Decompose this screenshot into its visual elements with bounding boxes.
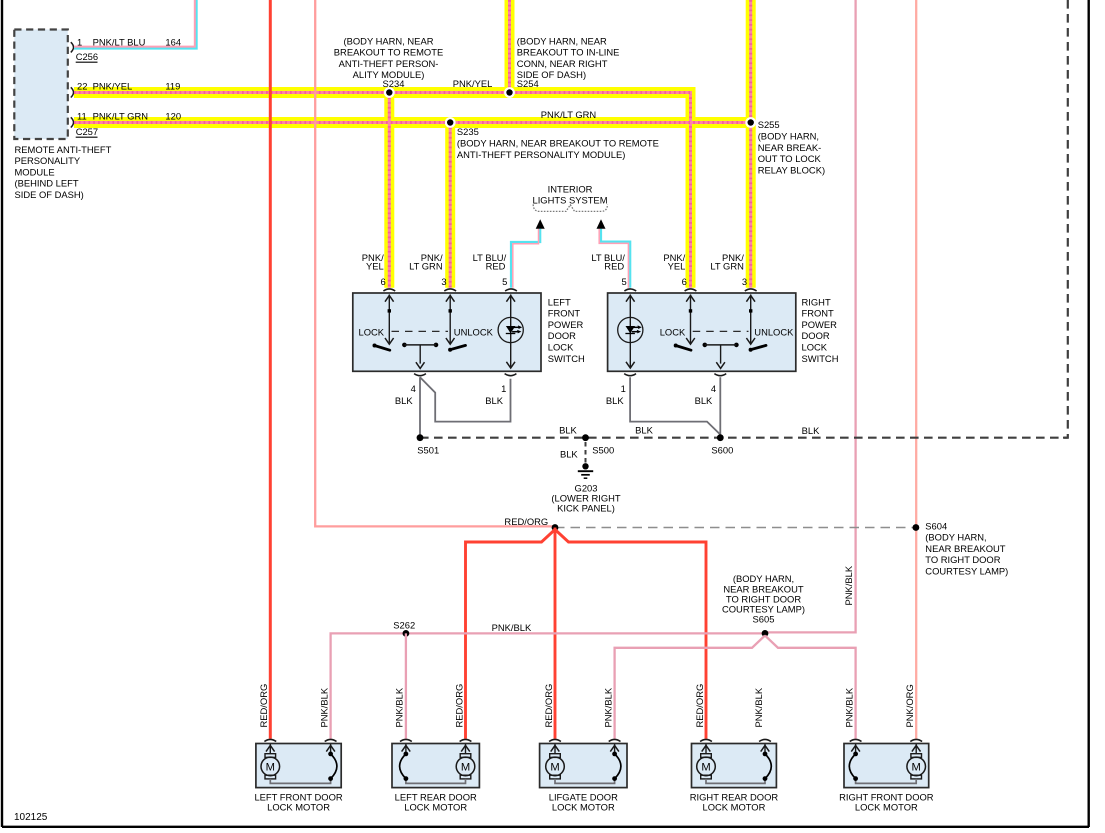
right front power door lock switch LOCK contact line xyxy=(690,295,692,344)
right front power door lock switch pin 6 (top) xyxy=(685,289,697,291)
svg-text:PNK/LT GRN: PNK/LT GRN xyxy=(541,109,596,120)
wire PNK/BLK S605 right branch to right front motor xyxy=(765,636,856,739)
svg-text:UNLOCK: UNLOCK xyxy=(754,326,794,337)
wire LT BLU/RED right switch pin 5 to interior lights system xyxy=(601,229,630,288)
wire PNK/ORG vertical from top to right front door motor xyxy=(915,0,917,739)
svg-text:M: M xyxy=(461,761,470,773)
wire BLK dashed vertical from top, corner to ground bus xyxy=(1063,0,1068,438)
svg-text:PNK/YEL: PNK/YEL xyxy=(453,78,493,89)
svg-text:LOCK MOTOR: LOCK MOTOR xyxy=(267,802,330,813)
svg-text:BLK: BLK xyxy=(606,395,624,406)
splice S254 xyxy=(504,87,515,98)
splice S605 xyxy=(762,630,769,637)
wire RED/ORG solid vertical from top to left front door motor xyxy=(269,0,272,739)
BLK dashed reference wire to S604 xyxy=(555,527,916,529)
splice S600 xyxy=(717,434,724,441)
svg-text:BREAKOUT TO REMOTE: BREAKOUT TO REMOTE xyxy=(334,47,443,58)
svg-text:RED/ORG: RED/ORG xyxy=(543,684,554,728)
module pin 11 connector bracket xyxy=(71,117,74,127)
wire PNK/LT BLU from module pin 1 up to top edge xyxy=(74,0,197,49)
right front power door lock switch UNLOCK contact line xyxy=(750,295,752,344)
right rear door lock motor motor M symbol xyxy=(705,744,707,754)
svg-text:FRONT: FRONT xyxy=(548,308,581,319)
svg-text:BLK: BLK xyxy=(560,449,578,460)
splice S604 xyxy=(913,524,920,531)
svg-text:4: 4 xyxy=(411,383,416,394)
svg-text:M: M xyxy=(550,761,559,773)
svg-text:BLK: BLK xyxy=(635,424,653,435)
svg-text:S254: S254 xyxy=(517,78,539,89)
dotted texture overlays on horizontal wire cores xyxy=(74,91,692,94)
svg-text:PNK/ORG: PNK/ORG xyxy=(904,684,915,727)
svg-text:YEL: YEL xyxy=(366,261,384,272)
left front power door lock switch switch blade (unlock side) xyxy=(448,348,452,352)
wire BLK dashed S500 to ground xyxy=(585,442,587,464)
dotted texture overlays on vertical wire cores xyxy=(508,0,511,93)
svg-text:LOCK: LOCK xyxy=(660,326,686,337)
right rear door lock motor contact arc xyxy=(765,754,771,779)
svg-text:11: 11 xyxy=(77,111,87,122)
left front power door lock switch LOCK contact line xyxy=(388,295,390,344)
wire BLK jumper right switch pin 1 to S600 xyxy=(630,377,720,434)
left front door lock motor pin brackets xyxy=(264,739,276,741)
svg-text:PNK/BLK: PNK/BLK xyxy=(492,622,532,633)
right front power door lock switch switch blade (lock side) xyxy=(674,344,678,348)
right front power door lock switch switch blade (unlock side) xyxy=(749,348,753,352)
splice S255 xyxy=(745,117,756,128)
svg-text:PNK/YEL: PNK/YEL xyxy=(93,80,133,91)
svg-text:PNK/LT BLU: PNK/LT BLU xyxy=(93,36,146,47)
svg-text:KICK PANEL): KICK PANEL) xyxy=(557,502,615,513)
right rear door lock motor box xyxy=(692,744,777,788)
wire PNK/YEL vertical corner to right switch pin 6 xyxy=(686,93,696,288)
wire BLK from right switch pin 4 down to S600 xyxy=(719,377,721,438)
page frame border xyxy=(1,0,3,827)
right rear door lock motor internal wire to contact arc xyxy=(706,779,765,784)
wire PNK/YEL vertical from top to S254 xyxy=(505,0,515,97)
liftgate door lock motor box xyxy=(540,744,627,788)
svg-text:5: 5 xyxy=(621,276,626,287)
svg-text:PNK/BLK: PNK/BLK xyxy=(318,687,329,727)
left rear door lock motor contact arc xyxy=(400,754,406,779)
svg-text:FRONT: FRONT xyxy=(802,308,835,319)
module pin 22 connector bracket xyxy=(71,87,74,97)
svg-text:(BODY HARN,: (BODY HARN, xyxy=(758,131,819,142)
wire RED/ORG center branch down to liftgate motor xyxy=(554,528,557,739)
splice S235 xyxy=(445,117,456,128)
svg-text:INTERIOR: INTERIOR xyxy=(548,183,593,194)
right front power door lock switch dashed link LOCK-UNLOCK xyxy=(693,330,749,332)
wire PNK/YEL horizontal from module pin 22 xyxy=(74,87,696,98)
left front power door lock switch dashed link LOCK-UNLOCK xyxy=(392,330,449,332)
left front door lock motor contact arc xyxy=(331,754,337,779)
svg-text:164: 164 xyxy=(165,36,181,47)
svg-text:S501: S501 xyxy=(417,445,439,456)
svg-text:SWITCH: SWITCH xyxy=(802,353,839,364)
left rear door lock motor pin brackets xyxy=(460,739,472,741)
left front door lock motor box xyxy=(256,744,341,788)
right front door lock motor contact arc xyxy=(849,754,855,779)
left front power door lock switch common contact T xyxy=(402,343,407,348)
left front power door lock switch switch blade (lock side) xyxy=(373,344,377,348)
svg-text:LOCK MOTOR: LOCK MOTOR xyxy=(855,802,918,813)
svg-text:(BODY HARN, NEAR BREAKOUT TO R: (BODY HARN, NEAR BREAKOUT TO REMOTE xyxy=(457,138,659,149)
svg-text:1: 1 xyxy=(501,383,506,394)
wire PNK/YEL vertical S234 to left switch pin 6 xyxy=(384,93,394,288)
svg-text:RED: RED xyxy=(486,261,506,272)
left front power door lock switch UNLOCK contact line xyxy=(449,295,451,344)
svg-text:1: 1 xyxy=(621,383,626,394)
wire PNK/LT GRN vertical from top through S255 to right switch pin 3 xyxy=(746,0,756,288)
wire BLK jumper left switch pin 4 to pin 1 xyxy=(420,377,511,421)
svg-text:M: M xyxy=(701,761,710,773)
left rear door lock motor motor M symbol xyxy=(465,744,467,754)
arrow to interior lights (left) xyxy=(536,219,545,229)
svg-text:M: M xyxy=(912,761,921,773)
splice S500 xyxy=(582,434,589,441)
svg-text:(BEHIND LEFT: (BEHIND LEFT xyxy=(15,178,79,189)
right front door lock motor box xyxy=(844,744,929,788)
left front door lock motor motor M symbol xyxy=(269,744,271,754)
wire PNK/LT GRN vertical S235 to left switch pin 3 xyxy=(445,123,455,288)
svg-text:S604: S604 xyxy=(925,520,947,531)
svg-text:MODULE: MODULE xyxy=(15,166,55,177)
svg-text:PNK/BLK: PNK/BLK xyxy=(394,687,405,727)
wire PNK/BLK main horizontal xyxy=(331,633,765,738)
arrow to interior lights (right) xyxy=(597,219,606,229)
svg-text:COURTESY LAMP): COURTESY LAMP) xyxy=(925,566,1008,577)
right front door lock motor pin brackets xyxy=(910,739,922,741)
svg-text:S234: S234 xyxy=(383,78,405,89)
svg-text:BLK: BLK xyxy=(695,395,713,406)
svg-text:RED/ORG: RED/ORG xyxy=(504,516,548,527)
right rear door lock motor pin brackets xyxy=(700,739,712,741)
svg-text:PNK/BLK: PNK/BLK xyxy=(602,687,613,727)
svg-text:NEAR BREAKOUT: NEAR BREAKOUT xyxy=(925,543,1005,554)
liftgate door lock motor contact arc xyxy=(615,754,621,779)
wire PNK/BLK S605 left branch to liftgate motor xyxy=(615,636,765,739)
svg-text:6: 6 xyxy=(682,276,687,287)
svg-text:RED/ORG: RED/ORG xyxy=(453,684,464,728)
wire PNK/BLK vertical from top, corner to S605 xyxy=(765,0,856,632)
svg-text:BLK: BLK xyxy=(802,425,820,436)
svg-text:LOCK: LOCK xyxy=(548,342,574,353)
right front door lock motor motor M symbol xyxy=(915,744,917,754)
svg-text:(BODY HARN,: (BODY HARN, xyxy=(925,532,986,543)
wire RED/ORG unhighlighted vertical from top, corner to splice xyxy=(315,0,555,526)
svg-text:RELAY BLOCK): RELAY BLOCK) xyxy=(758,164,825,175)
svg-text:M: M xyxy=(266,761,275,773)
svg-text:UNLOCK: UNLOCK xyxy=(454,326,494,337)
wire PNK/LT GRN horizontal from module pin 11 xyxy=(74,117,751,128)
svg-text:SWITCH: SWITCH xyxy=(548,353,585,364)
svg-text:S235: S235 xyxy=(457,126,479,137)
right front power door lock switch pin 4 (bottom) xyxy=(714,374,726,376)
svg-text:DOOR: DOOR xyxy=(802,330,830,341)
svg-text:S262: S262 xyxy=(393,620,415,631)
right front power door lock switch box xyxy=(608,293,796,371)
left front power door lock switch pin 3 (top) xyxy=(444,289,456,291)
svg-text:PNK/LT GRN: PNK/LT GRN xyxy=(93,111,148,122)
svg-text:6: 6 xyxy=(380,276,385,287)
wire RED/ORG right branch to right rear motor xyxy=(555,530,706,739)
left front power door lock switch pin 6 (top) xyxy=(383,289,395,291)
left front power door lock switch illumination LED xyxy=(510,295,512,368)
svg-text:LT GRN: LT GRN xyxy=(710,261,744,272)
svg-text:NEAR BREAK-: NEAR BREAK- xyxy=(758,142,822,153)
wire RED/ORG left branch to left rear motor xyxy=(466,530,556,739)
brace under interior lights label xyxy=(533,204,607,211)
svg-text:BLK: BLK xyxy=(395,395,413,406)
left rear door lock motor box xyxy=(392,744,479,788)
svg-text:PNK/BLK: PNK/BLK xyxy=(753,687,764,727)
svg-text:LOCK MOTOR: LOCK MOTOR xyxy=(404,802,467,813)
right front power door lock switch pin 3 (top) xyxy=(745,289,757,291)
left front power door lock switch box xyxy=(353,293,541,371)
left front power door lock switch pin 4 (bottom) xyxy=(414,374,426,376)
svg-text:SIDE OF DASH): SIDE OF DASH) xyxy=(15,189,84,200)
svg-text:CONN, NEAR RIGHT: CONN, NEAR RIGHT xyxy=(517,58,608,69)
svg-text:LOCK: LOCK xyxy=(359,326,385,337)
svg-text:LOCK MOTOR: LOCK MOTOR xyxy=(552,802,615,813)
right front door lock motor internal wire to contact arc xyxy=(856,779,917,784)
liftgate door lock motor internal wire to contact arc xyxy=(555,779,615,784)
svg-text:RIGHT: RIGHT xyxy=(802,296,831,307)
svg-text:ANTI-THEFT PERSONALITY MODULE): ANTI-THEFT PERSONALITY MODULE) xyxy=(457,149,625,160)
svg-text:(BODY HARN, NEAR: (BODY HARN, NEAR xyxy=(517,35,607,46)
svg-text:S500: S500 xyxy=(592,444,614,455)
svg-text:120: 120 xyxy=(165,111,181,122)
svg-text:BLK: BLK xyxy=(559,424,577,435)
right front power door lock switch common contact T xyxy=(703,343,708,348)
svg-text:119: 119 xyxy=(165,80,180,91)
ground G203 symbol xyxy=(582,463,588,469)
right front power door lock switch pin 5 (top) xyxy=(624,289,636,291)
svg-text:BLK: BLK xyxy=(485,395,503,406)
svg-text:POWER: POWER xyxy=(802,319,838,330)
svg-text:LOCK MOTOR: LOCK MOTOR xyxy=(703,802,766,813)
svg-text:C257: C257 xyxy=(76,126,98,137)
splice S262 xyxy=(403,630,410,637)
right front power door lock switch illumination LED xyxy=(629,295,631,368)
svg-text:102125: 102125 xyxy=(14,812,48,823)
svg-text:DOOR: DOOR xyxy=(548,330,576,341)
svg-text:S255: S255 xyxy=(758,119,780,130)
liftgate door lock motor motor M symbol xyxy=(554,744,556,754)
svg-text:LOCK: LOCK xyxy=(802,342,828,353)
svg-text:LT GRN: LT GRN xyxy=(409,261,443,272)
splice S501 xyxy=(417,434,424,441)
svg-text:(BODY HARN, NEAR: (BODY HARN, NEAR xyxy=(344,35,434,46)
svg-text:S605: S605 xyxy=(753,613,775,624)
svg-text:PERSONALITY: PERSONALITY xyxy=(15,155,81,166)
left rear door lock motor internal wire to contact arc xyxy=(406,779,466,784)
svg-text:22: 22 xyxy=(77,80,87,91)
svg-text:ANTI-THEFT PERSON-: ANTI-THEFT PERSON- xyxy=(339,58,439,69)
liftgate door lock motor pin brackets xyxy=(549,739,561,741)
svg-text:TO RIGHT DOOR: TO RIGHT DOOR xyxy=(925,554,1000,565)
svg-text:5: 5 xyxy=(502,276,507,287)
svg-text:4: 4 xyxy=(711,383,716,394)
svg-text:PNK/BLK: PNK/BLK xyxy=(843,687,854,727)
svg-text:PNK/BLK: PNK/BLK xyxy=(843,565,854,605)
svg-text:RED/ORG: RED/ORG xyxy=(258,684,269,728)
svg-text:C256: C256 xyxy=(76,51,98,62)
svg-text:POWER: POWER xyxy=(548,319,584,330)
BLK ground bus dashed wire xyxy=(420,437,1068,439)
wire LT BLU/RED left switch pin 5 to interior lights system xyxy=(511,229,540,288)
svg-text:3: 3 xyxy=(742,276,747,287)
wire BLK from left switch pin 4 down to S501 xyxy=(419,377,421,438)
svg-text:YEL: YEL xyxy=(668,261,686,272)
svg-text:LEFT: LEFT xyxy=(548,296,571,307)
left front door lock motor internal wire to contact arc xyxy=(270,779,330,784)
svg-text:1: 1 xyxy=(77,36,82,47)
svg-text:LIGHTS SYSTEM: LIGHTS SYSTEM xyxy=(532,195,607,206)
svg-text:RED: RED xyxy=(604,261,624,272)
left front power door lock switch pin 5 (top) xyxy=(505,289,517,291)
left front power door lock switch pin 1 (bottom) xyxy=(505,374,517,376)
svg-text:REMOTE ANTI-THEFT: REMOTE ANTI-THEFT xyxy=(15,144,112,155)
pink core strokes of yellow wires xyxy=(508,0,511,93)
svg-text:S600: S600 xyxy=(711,445,733,456)
wire PNK/BLK S262 down to left rear motor xyxy=(405,633,407,738)
svg-text:BREAKOUT TO IN-LINE: BREAKOUT TO IN-LINE xyxy=(517,47,620,58)
splice S234 xyxy=(384,87,395,98)
right front power door lock switch pin 1 (bottom) xyxy=(624,374,636,376)
module pin 1 connector bracket xyxy=(71,42,74,52)
remote anti-theft personality module C256/C257 xyxy=(14,30,68,140)
svg-text:3: 3 xyxy=(441,276,446,287)
svg-text:RED/ORG: RED/ORG xyxy=(694,684,705,728)
splice RED/ORG junction xyxy=(552,524,559,531)
svg-text:OUT TO LOCK: OUT TO LOCK xyxy=(758,153,822,164)
